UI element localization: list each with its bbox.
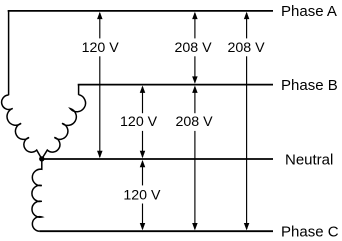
- label: 120 V (N-C): [122, 185, 162, 203]
- winding C (bottom coil, node to Phase C): [32, 159, 42, 231]
- arrow: Neutral to Phase C (120 V): [140, 160, 146, 231]
- svg-text:208 V: 208 V: [175, 114, 213, 130]
- svg-text:Phase A: Phase A: [281, 3, 337, 20]
- winding B (right coil, Phase B to node): [42, 95, 86, 159]
- wire: Phase A horizontal line: [8, 10, 273, 12]
- arrow: Phase A to Phase B (208 V): [192, 12, 198, 84]
- label: 208 V (B-C): [174, 113, 214, 131]
- label: 208 V (A-C): [226, 38, 266, 56]
- arrow: Phase B to Phase C (208 V): [192, 86, 198, 231]
- label: 120 V (A-N): [80, 38, 120, 56]
- winding A (left coil, Phase A to node): [2, 95, 42, 159]
- label: 208 V (A-B): [173, 38, 213, 56]
- arrow: Phase A to Phase C (208 V): [244, 12, 250, 231]
- wire: drop from Phase B: [78, 85, 80, 95]
- wire: left drop from Phase A: [8, 10, 10, 95]
- svg-text:208 V: 208 V: [174, 40, 212, 56]
- svg-text:Phase C: Phase C: [281, 224, 339, 241]
- svg-text:Neutral: Neutral: [285, 151, 333, 168]
- svg-text:120 V: 120 V: [123, 187, 161, 203]
- wire: Phase C horizontal line: [39, 230, 273, 232]
- node: neutral junction dot: [39, 156, 44, 161]
- wire: Phase B horizontal line: [78, 84, 273, 86]
- arrow: Phase A to Neutral (120 V): [97, 12, 103, 159]
- arrow: Phase B to Neutral (120 V): [140, 86, 146, 159]
- svg-text:Phase B: Phase B: [281, 77, 338, 94]
- wire: Neutral horizontal line: [42, 158, 273, 160]
- svg-text:208 V: 208 V: [227, 40, 265, 56]
- label: 120 V (B-N): [119, 113, 159, 131]
- svg-text:120 V: 120 V: [120, 114, 158, 130]
- svg-text:120 V: 120 V: [82, 40, 120, 56]
